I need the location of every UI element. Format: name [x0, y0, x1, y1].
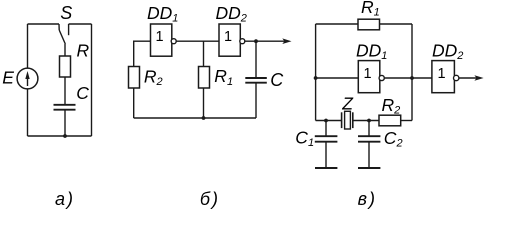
wire: v lower row middle segment: [353, 120, 379, 122]
svg-text:1: 1: [363, 66, 371, 82]
capacitor C: [54, 105, 76, 110]
wire: C to bottom: [64, 110, 66, 136]
wire: down to C1: [325, 121, 327, 137]
arrowhead: output of circuit b: [282, 38, 291, 44]
svg-text:R2: R2: [382, 95, 401, 117]
wire: v right rail (feedback): [411, 24, 413, 121]
svg-text:R: R: [77, 41, 90, 61]
svg-text:в): в): [358, 189, 377, 209]
wire: down to C2: [368, 121, 370, 137]
logic gate DD2 (circuit v): [432, 61, 459, 93]
wire: a right branch: [91, 24, 93, 136]
junction: output node to capacitor branch: [254, 39, 258, 43]
wire: switch blade to resistor R: [64, 44, 66, 56]
resistor R2 (circuit v): [379, 115, 401, 126]
junction: R1 to bottom rail: [202, 116, 206, 120]
wire: tap down to R1: [203, 41, 205, 118]
resistor R1 (circuit b): [199, 67, 210, 89]
wire: a top-left segment to switch: [28, 23, 60, 25]
wire: C1 to ground: [325, 142, 327, 168]
svg-text:1: 1: [155, 29, 163, 45]
wire: R to capacitor C: [64, 77, 66, 105]
ground (C1 branch): [315, 167, 337, 169]
wire: DD1 output to DD2 input: [176, 40, 219, 42]
svg-text:DD2: DD2: [432, 41, 463, 63]
wire: v lower row left segment: [316, 120, 342, 122]
junction: lower row to C1: [324, 119, 328, 123]
logic gate DD2 (circuit b): [219, 24, 245, 56]
logic gate DD1 (circuit b): [151, 24, 177, 56]
wire: C to bottom: [255, 83, 257, 118]
wire: v input row: [316, 77, 359, 79]
wire: DD2 output to arrow: [459, 77, 477, 79]
resistor R: [60, 56, 71, 77]
capacitor C (circuit b): [245, 78, 266, 83]
capacitor C2: [358, 136, 380, 142]
svg-text:б): б): [200, 189, 220, 209]
wire: DD2 output to arrow: [245, 40, 285, 42]
arrowhead: output of circuit v: [474, 75, 483, 81]
wire: v left rail: [315, 24, 317, 121]
crystal resonator Z: [342, 111, 353, 129]
svg-text:C: C: [270, 70, 284, 90]
voltage source E (circle with up arrow): [17, 68, 38, 89]
svg-text:DD2: DD2: [216, 3, 247, 25]
svg-text:S: S: [60, 3, 72, 23]
wire: b bottom rail: [134, 117, 256, 119]
svg-text:Z: Z: [341, 93, 354, 113]
wire: a bottom: [28, 135, 92, 137]
svg-text:DD1: DD1: [147, 3, 178, 25]
svg-text:а): а): [55, 189, 75, 209]
svg-text:R1: R1: [214, 66, 233, 88]
wire: DD1 output to DD2 input: [384, 77, 432, 79]
logic gate DD1 (circuit v): [358, 61, 384, 93]
wire: v lower row right segment: [401, 120, 412, 122]
junction: lower row to C2: [367, 119, 371, 123]
switch S (contact tick, blade, fixed stub): [59, 24, 69, 44]
svg-text:1: 1: [437, 66, 445, 82]
svg-text:DD1: DD1: [356, 41, 387, 63]
junction: left rail to DD1 input: [314, 76, 318, 80]
svg-text:E: E: [2, 67, 14, 87]
wire: C2 to ground: [368, 142, 370, 168]
wire: output node down to capacitor C: [255, 41, 257, 78]
svg-text:C1: C1: [295, 127, 314, 149]
wire: b input row (DD1 input to left corner and down): [134, 41, 151, 118]
resistor R1 (circuit v): [358, 19, 380, 30]
junction: DD1 output node to feedback rail: [410, 76, 414, 80]
wire: a left branch (top-left corner down to bottom-left): [27, 24, 29, 136]
svg-text:C2: C2: [384, 128, 403, 150]
svg-text:1: 1: [224, 29, 232, 45]
resistor R2 (circuit b): [129, 67, 140, 89]
wire: a top-right segment from switch to corner: [69, 23, 92, 25]
ground (C2 branch): [358, 167, 380, 169]
wire: v top feedback rail: [316, 23, 412, 25]
svg-text:R1: R1: [361, 0, 380, 19]
svg-text:C: C: [76, 83, 89, 103]
junction: middle branch to bottom wire: [63, 134, 67, 138]
capacitor C1: [315, 136, 338, 142]
svg-text:R2: R2: [144, 67, 163, 89]
